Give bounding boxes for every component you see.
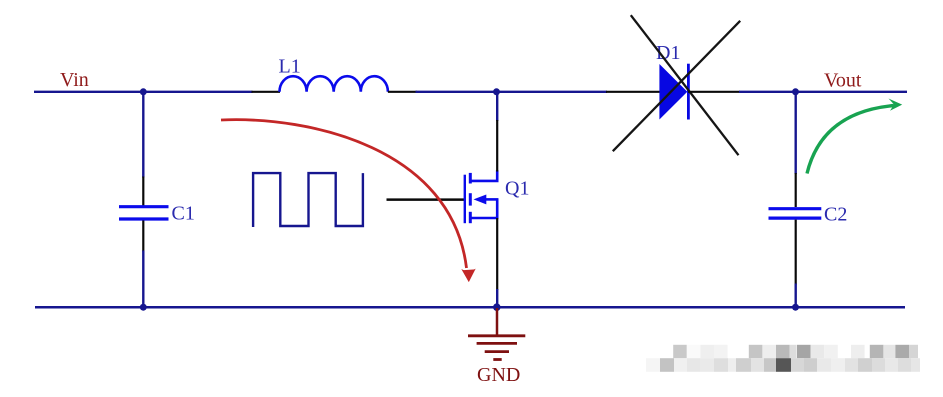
svg-text:L1: L1: [279, 56, 301, 78]
capacitor C2 top plate: [769, 207, 822, 210]
wire L1 left lead (black): [252, 91, 281, 93]
green arrow head: [889, 99, 903, 111]
watermark mosaic: [646, 345, 920, 372]
ground symbol bar 1: [468, 334, 525, 337]
wire bottom ground rail (blue): [35, 306, 905, 309]
node junction dot Q1 source / ground: [493, 303, 501, 311]
svg-text:C2: C2: [824, 204, 847, 226]
transistor Q1 source connection: [471, 199, 497, 219]
transistor Q1 body line: [485, 198, 498, 201]
wire L1 to switch node (blue): [416, 91, 497, 93]
svg-text:Q1: Q1: [505, 178, 529, 200]
diode D1 cathode bar: [687, 64, 690, 120]
ground symbol bar 3: [485, 350, 509, 353]
svg-text:Vin: Vin: [60, 69, 89, 91]
node junction dot C1 bottom: [140, 304, 147, 311]
wire C2 upper lead (blue then black): [795, 92, 797, 174]
wire C1 upper lead (blue then black): [142, 92, 144, 178]
transistor Q1 drain connection: [471, 170, 497, 181]
node junction dot Vout/C2 top: [792, 88, 799, 95]
node junction dot C2 bottom: [792, 304, 799, 311]
svg-text:GND: GND: [477, 364, 520, 386]
cross-out line SW-NE over D1: [613, 21, 740, 151]
ground symbol bar 4: [493, 358, 501, 361]
node junction dot Vin/C1 top: [140, 88, 147, 95]
wire L1 right lead (black): [388, 91, 417, 93]
capacitor C1 top plate: [119, 205, 169, 208]
node junction dot switch node: [493, 88, 500, 95]
transistor Q1 channel middle segment: [469, 193, 472, 205]
wire C2 lower lead (black then blue): [795, 220, 797, 285]
capacitor C2 bottom plate: [769, 217, 822, 220]
wire D1 to Vout node and output (blue): [739, 91, 907, 93]
capacitor C1 bottom plate: [119, 217, 169, 220]
square wave gate drive signal: [253, 173, 363, 227]
inductor L1: [280, 76, 388, 92]
red current path arrow (switch-on loop): [221, 120, 467, 268]
wire top rail: Vin to C1 node to L1 (blue): [34, 91, 253, 93]
transistor Q1 channel top segment: [469, 173, 472, 184]
wire D1 anode lead (black): [606, 91, 660, 93]
transistor Q1 gate bar: [464, 175, 466, 224]
svg-text:C1: C1: [172, 203, 195, 225]
green output current arrow: [807, 106, 894, 174]
transistor Q1 channel bottom segment: [469, 212, 472, 223]
ground symbol bar 2: [477, 342, 517, 345]
diode D1 triangle: [659, 64, 687, 120]
wire C1 lower lead (black then blue): [142, 221, 144, 252]
wire D1 cathode lead (black): [688, 91, 740, 93]
svg-text:Vout: Vout: [824, 70, 862, 92]
wire switch node to D1 anode (blue): [497, 91, 608, 93]
wire Q1 source to ground rail (black then blue): [496, 218, 498, 290]
ground symbol stem: [496, 308, 499, 336]
transistor Q1 body arrow: [474, 195, 487, 205]
wire gate lead (black): [387, 198, 466, 201]
wire switch node to Q1 drain (blue then black): [496, 92, 498, 121]
red arrow head: [461, 269, 475, 282]
cross-out line NW-SE over D1: [631, 15, 739, 155]
